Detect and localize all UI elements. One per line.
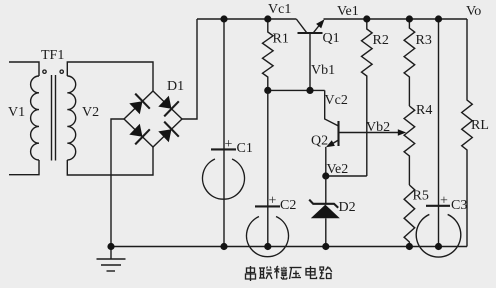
svg-text:Vc2: Vc2 xyxy=(325,93,348,108)
wire bridge right corner up to top rail xyxy=(182,19,197,119)
wire secondary bottom to bridge bottom corner xyxy=(67,147,153,175)
node dot Ve2 xyxy=(322,172,329,179)
node dot R3 top rail xyxy=(406,15,413,22)
svg-text:RL: RL xyxy=(471,118,489,133)
svg-text:V2: V2 xyxy=(82,105,99,120)
svg-text:Vb2: Vb2 xyxy=(366,120,390,135)
wire Ve2 node to R2 bottom xyxy=(326,175,367,177)
capacitor C1 wire xyxy=(223,19,225,247)
zener diode D2 cathode bar with hooks xyxy=(309,200,338,208)
transformer TF1 secondary winding V2 xyxy=(67,76,75,160)
transformer TF1 phasing dot primary xyxy=(43,70,46,73)
svg-text:Q2: Q2 xyxy=(311,134,328,149)
transistor Q1 base bar xyxy=(298,32,323,34)
node dot R1 bottom / C2 top xyxy=(264,87,271,94)
node dot C2 bottom xyxy=(264,243,271,250)
transistor Q1 collector lead xyxy=(296,19,306,32)
wire top rail left segment (Vc1 net) xyxy=(197,18,296,20)
ground symbol xyxy=(97,247,126,272)
capacitor C1 plate xyxy=(211,148,236,150)
svg-text:Q1: Q1 xyxy=(323,31,340,46)
svg-text:C3: C3 xyxy=(451,198,467,213)
node dot C1 bottom xyxy=(220,243,227,250)
caption glyph 电 xyxy=(306,266,317,279)
transformer TF1 primary top stub wire xyxy=(9,62,39,76)
wire top rail right segment (Ve1/Vo net) xyxy=(324,18,468,20)
svg-text:V1: V1 xyxy=(8,105,25,120)
transistor Q2 base bar xyxy=(337,121,339,146)
node dot D2 bottom xyxy=(322,243,329,250)
svg-text:R1: R1 xyxy=(273,32,289,47)
transformer TF1 core xyxy=(52,75,56,161)
svg-text:R4: R4 xyxy=(416,103,432,118)
wire Q1 base lead down to Vb1 node xyxy=(309,33,311,90)
node dot R5 bottom xyxy=(406,243,413,250)
svg-text:Vb1: Vb1 xyxy=(311,63,335,78)
bridge rectifier D1 diamond xyxy=(124,91,182,147)
transformer TF1 phasing dot secondary xyxy=(60,70,63,73)
node dot Vb1 xyxy=(306,87,313,94)
svg-text:+: + xyxy=(269,194,277,209)
transistor Q2 collector lead xyxy=(325,90,338,125)
zener diode D2 wire top xyxy=(325,176,327,204)
svg-text:Ve2: Ve2 xyxy=(327,162,349,177)
transformer TF1 primary bottom stub wire xyxy=(9,160,39,175)
svg-text:R2: R2 xyxy=(373,33,389,48)
wire secondary top to bridge top corner xyxy=(67,62,153,91)
svg-text:C1: C1 xyxy=(237,141,253,156)
transformer TF1 primary winding V1 xyxy=(31,76,39,160)
resistor R4 (adjustable) xyxy=(404,106,415,185)
wire Q2 base to potentiometer wiper arrow xyxy=(339,129,407,135)
resistor R5 xyxy=(404,185,415,247)
svg-text:D1: D1 xyxy=(167,79,184,94)
svg-text:D2: D2 xyxy=(339,200,356,215)
node dot ground bus left xyxy=(107,243,114,250)
node dot C1 top rail xyxy=(220,15,227,22)
wire ground bus xyxy=(111,246,467,248)
svg-text:R5: R5 xyxy=(413,189,429,204)
capacitor C3 wire xyxy=(438,19,440,247)
node dot R2 top rail (Ve1) xyxy=(363,15,370,22)
node dot R1 top rail (Vc1) xyxy=(264,15,271,22)
caption glyph 压 xyxy=(290,268,302,280)
zener diode D2 wire bottom xyxy=(325,218,327,246)
bridge D1 diode top-left xyxy=(129,94,150,115)
bridge D1 diode bottom-left xyxy=(129,124,150,145)
transistor Q1 emitter with arrow xyxy=(314,19,325,32)
bridge D1 diode bottom-right xyxy=(158,122,179,143)
svg-text:+: + xyxy=(440,194,448,209)
wire Vb1 node horizontal xyxy=(268,89,325,91)
capacitor C3 shell xyxy=(416,214,461,257)
capacitor C2 shell xyxy=(247,217,289,257)
svg-text:R3: R3 xyxy=(416,33,432,48)
node dot C3 bottom xyxy=(435,243,442,250)
capacitor C2 wire xyxy=(267,90,269,246)
svg-text:+: + xyxy=(225,137,233,152)
bridge D1 diode top-right xyxy=(158,96,179,117)
resistor R2 xyxy=(362,19,373,176)
svg-text:Vc1: Vc1 xyxy=(268,2,291,17)
transistor Q2 emitter with arrow xyxy=(326,140,339,176)
caption glyph 串 xyxy=(246,266,256,281)
svg-text:TF1: TF1 xyxy=(41,48,64,63)
caption glyph 路 xyxy=(320,267,332,279)
svg-text:Ve1: Ve1 xyxy=(337,4,359,19)
resistor RL with leads xyxy=(462,19,473,247)
resistor R1 xyxy=(263,19,274,91)
zener diode D2 triangle xyxy=(311,205,340,219)
capacitor C3 plate xyxy=(426,205,450,207)
capacitor C2 plate xyxy=(255,205,280,207)
caption glyph 稳 xyxy=(274,266,287,279)
caption 串联稳压电路 (hand-drawn glyphs) xyxy=(246,266,332,281)
svg-text:Vo: Vo xyxy=(466,4,481,19)
resistor R3 xyxy=(404,19,415,106)
wire bridge left corner to ground bus (crossover, no dot) xyxy=(111,119,124,247)
caption glyph 联 xyxy=(259,267,272,280)
capacitor C1 shell xyxy=(202,159,244,199)
svg-text:C2: C2 xyxy=(280,198,296,213)
node dot C3 top rail xyxy=(435,15,442,22)
